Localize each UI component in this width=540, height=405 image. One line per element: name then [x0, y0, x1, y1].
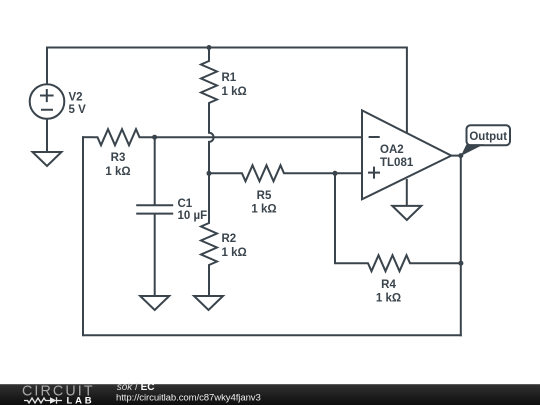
wire corner to R3 left — [82, 136, 93, 138]
resistor R5 — [237, 165, 288, 181]
svg-text:1 kΩ: 1 kΩ — [376, 293, 401, 305]
wire output column down — [460, 156, 462, 337]
op-amp V- pin to ground — [406, 179, 408, 206]
svg-text:R4: R4 — [381, 279, 396, 291]
node dot output — [458, 153, 463, 158]
capacitor C1 — [136, 137, 173, 296]
op-amp OA2 triangle — [362, 110, 451, 199]
ground below R2 — [194, 296, 223, 310]
resistor R3 — [93, 129, 144, 145]
svg-text:R5: R5 — [257, 190, 272, 202]
svg-text:1 kΩ: 1 kΩ — [251, 204, 276, 216]
resistor R1 — [201, 57, 217, 107]
svg-text:R2: R2 — [222, 233, 237, 245]
svg-text:TL081: TL081 — [380, 157, 414, 169]
output flag box — [467, 125, 511, 145]
op-amp minus input symbol — [369, 136, 380, 138]
logo resistor squiggle — [24, 398, 50, 403]
node dot R4 / output rail — [458, 261, 463, 266]
wire top rail V2 top to op-amp V+ pin — [47, 48, 407, 134]
wire R4 right to output rail — [414, 262, 461, 264]
node dot top rail / R1 — [207, 45, 212, 50]
svg-text:5 V: 5 V — [69, 104, 87, 116]
wire node to R5 left — [209, 172, 237, 174]
ground below op-amp — [392, 206, 421, 220]
wire node to R1 top — [208, 48, 210, 58]
svg-text:V2: V2 — [69, 92, 83, 104]
resistor R2 — [201, 218, 217, 269]
voltage source V2 — [30, 84, 65, 119]
wire V2 to ground — [46, 119, 48, 152]
svg-text:sok / EC: sok / EC — [117, 382, 155, 393]
svg-text:Output: Output — [469, 131, 507, 143]
wire R1 bottom to node, with hop over minus wire — [209, 107, 214, 218]
wire R5 right to op-amp noninverting input — [288, 172, 362, 174]
resistor R4 — [364, 255, 414, 271]
svg-text:R1: R1 — [222, 72, 237, 84]
wire bottom rail — [83, 334, 462, 336]
svg-text:R3: R3 — [111, 152, 126, 164]
wire plus feedback down from node — [335, 173, 364, 263]
logo diode arrow — [50, 397, 57, 403]
node dot R3 / C1 / minus wire — [152, 135, 157, 140]
wire minus input, node A to op-amp inverting input — [144, 136, 362, 138]
op-amp plus input symbol — [368, 167, 380, 179]
node dot R5 / plus / feedback — [333, 171, 338, 176]
wire R2 bottom to ground — [208, 269, 210, 296]
node dot R1 / R2 / R5 — [207, 171, 212, 176]
svg-text:1 kΩ: 1 kΩ — [105, 166, 130, 178]
ground below C1 — [140, 296, 169, 310]
svg-text:http://circuitlab.com/c87wky4f: http://circuitlab.com/c87wky4fjanv3 — [116, 392, 261, 403]
svg-text:10 µF: 10 µF — [178, 210, 208, 222]
svg-text:1 kΩ: 1 kΩ — [222, 247, 247, 259]
svg-text:1 kΩ: 1 kΩ — [222, 86, 247, 98]
svg-text:C1: C1 — [178, 198, 193, 210]
output flag pointer — [461, 144, 484, 156]
svg-text:LAB: LAB — [67, 395, 95, 405]
wire left loop vertical — [82, 136, 84, 336]
svg-text:OA2: OA2 — [380, 144, 404, 156]
footer bar — [0, 384, 540, 405]
ground below V2 — [33, 152, 62, 166]
wire op-amp output stub — [451, 155, 461, 157]
